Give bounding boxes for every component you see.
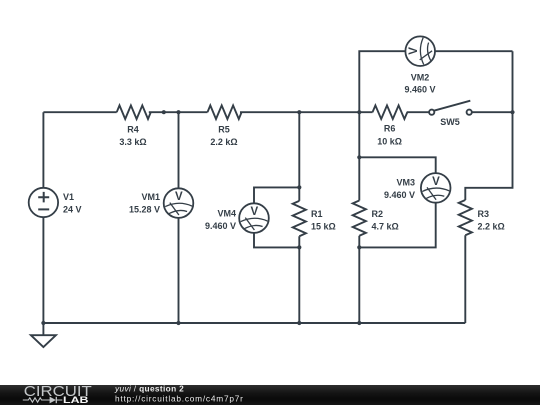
wire R5 to R6 bbox=[240, 111, 373, 113]
label R6 bbox=[377, 124, 402, 147]
voltmeter VM1 bbox=[164, 188, 194, 218]
logo CIRCUIT text bbox=[24, 384, 92, 400]
switch SW5 bbox=[429, 101, 472, 115]
node dot VM1 bottom bbox=[176, 321, 180, 325]
wire R1 branch top bbox=[298, 112, 300, 201]
wire R4 to R5 bbox=[149, 111, 208, 113]
label V in VM4 bbox=[250, 206, 258, 218]
node dot VM4 top tee bbox=[297, 185, 301, 189]
label R2 bbox=[372, 209, 399, 232]
wire left rail bottom bbox=[42, 217, 44, 323]
wire top segment V1 to R4 bbox=[43, 111, 116, 113]
voltage source V1 bbox=[29, 188, 58, 217]
wire bottom rail bbox=[43, 322, 465, 324]
node dot R2 bottom bbox=[357, 321, 361, 325]
voltmeter VM4 bbox=[239, 203, 269, 233]
label V in VM1 bbox=[175, 191, 183, 203]
resistor R1 bbox=[293, 201, 306, 236]
wire R6 to SW5 bbox=[407, 111, 429, 113]
label VM2 bbox=[404, 73, 435, 95]
node dot VM4 bottom tee bbox=[297, 245, 301, 249]
label V in VM3 bbox=[432, 176, 440, 188]
wire VM3 loop bbox=[359, 157, 435, 247]
wire left rail top bbox=[42, 112, 44, 188]
wire R2 branch top bbox=[358, 112, 360, 200]
node dot R1 top bbox=[297, 110, 301, 114]
ground bbox=[31, 323, 56, 347]
wire SW5 to right rail bbox=[472, 111, 513, 113]
wire VM2 loop top bbox=[359, 51, 512, 112]
voltmeter VM2 (rotated 90 CCW) bbox=[405, 36, 435, 66]
label VM3 bbox=[384, 178, 415, 201]
resistor R5 bbox=[208, 105, 242, 119]
wire R2 branch bottom bbox=[358, 236, 360, 323]
label VM1 bbox=[129, 192, 160, 215]
node dot right rail SW5 bbox=[510, 110, 514, 114]
logo resistor + diode glyph bbox=[23, 397, 63, 403]
footer bar bbox=[0, 385, 540, 405]
label R5 bbox=[210, 125, 237, 148]
label VM4 bbox=[205, 209, 236, 232]
node dot A (R4 right) bbox=[162, 110, 166, 114]
wire VM1 branch bbox=[178, 112, 180, 323]
svg-text:LAB: LAB bbox=[63, 395, 89, 405]
label SW5 bbox=[440, 117, 460, 127]
wire VM4 bracket bbox=[254, 187, 299, 247]
label V1 bbox=[63, 192, 82, 215]
label R4 bbox=[119, 125, 146, 148]
svg-text:http://circuitlab.com/c4m7p7r: http://circuitlab.com/c4m7p7r bbox=[115, 394, 244, 404]
resistor R6 bbox=[373, 105, 408, 119]
wire right rail bbox=[465, 51, 512, 200]
label R1 bbox=[311, 209, 336, 232]
svg-text:yuvi / question 2: yuvi / question 2 bbox=[114, 384, 184, 394]
wire R1 branch bottom bbox=[298, 236, 300, 323]
node dot VM3 bottom tee bbox=[357, 245, 361, 249]
resistor R4 bbox=[117, 105, 151, 119]
node dot VM1 top bbox=[176, 110, 180, 114]
node dot R2 top bbox=[357, 110, 361, 114]
voltmeter VM3 bbox=[421, 173, 451, 203]
label V in VM2 rotated bbox=[408, 47, 420, 55]
resistor R2 bbox=[353, 201, 366, 236]
voltmeter V letters bbox=[175, 47, 440, 218]
node dot R1 bottom bbox=[297, 321, 301, 325]
node dot ground bbox=[41, 321, 45, 325]
wire R3 to bottom rail bbox=[464, 235, 466, 323]
footer line 1 bbox=[114, 384, 244, 404]
label R3 bbox=[478, 209, 505, 232]
resistor R3 bbox=[459, 200, 472, 235]
logo LAB text bbox=[63, 395, 89, 405]
node dot VM3 top tee bbox=[357, 155, 361, 159]
